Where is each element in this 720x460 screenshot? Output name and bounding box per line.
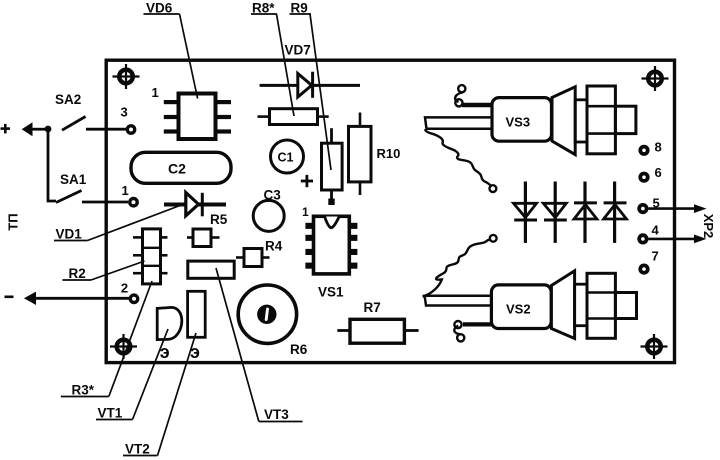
svg-text:VD7: VD7 bbox=[285, 43, 311, 58]
C1 polarity plus bbox=[301, 175, 313, 187]
switch SA2 bbox=[55, 92, 127, 130]
diode VD2 bbox=[514, 182, 538, 243]
capacitor C3 bbox=[253, 188, 284, 232]
VT1 emitter label bbox=[160, 342, 170, 362]
VD6 pin 1 label bbox=[152, 85, 159, 100]
svg-text:8: 8 bbox=[655, 140, 662, 155]
connector pin 4 bbox=[637, 223, 706, 245]
diode VD3 bbox=[543, 182, 567, 243]
svg-text:R6: R6 bbox=[290, 342, 308, 357]
diode VD4 bbox=[574, 182, 597, 243]
resistor R7 bbox=[337, 300, 418, 343]
R2 label bbox=[63, 261, 145, 281]
mounting hole top-left bbox=[113, 64, 140, 89]
svg-text:VS2: VS2 bbox=[506, 302, 531, 317]
transistor VT2 bbox=[188, 291, 206, 337]
mounting hole bottom-right bbox=[641, 334, 668, 359]
svg-text:R4: R4 bbox=[265, 239, 283, 254]
net label TP bbox=[6, 213, 21, 230]
svg-text:1: 1 bbox=[122, 183, 129, 198]
svg-text:4: 4 bbox=[652, 223, 660, 238]
VD1 label bbox=[54, 206, 180, 242]
svg-text:VT1: VT1 bbox=[98, 406, 123, 421]
svg-text:VT3: VT3 bbox=[264, 407, 289, 422]
svg-text:R7: R7 bbox=[364, 300, 381, 315]
VD6 label bbox=[144, 1, 198, 99]
svg-text:C2: C2 bbox=[168, 161, 186, 177]
resistor R4 bbox=[236, 239, 283, 267]
VS1 pin 1 label bbox=[302, 205, 309, 219]
VT2 label bbox=[123, 333, 196, 457]
svg-text:7: 7 bbox=[652, 249, 659, 264]
wire junction to SA1 bbox=[48, 129, 56, 201]
connector pin 7 bbox=[638, 249, 658, 275]
svg-text:ТП: ТП bbox=[6, 213, 21, 230]
mounting hole top-right bbox=[642, 66, 669, 91]
connector pin 8 bbox=[638, 140, 661, 156]
svg-text:SA2: SA2 bbox=[55, 92, 81, 107]
R3* label bbox=[61, 281, 152, 398]
svg-text:2: 2 bbox=[121, 281, 128, 296]
svg-text:R10: R10 bbox=[377, 146, 401, 161]
buzzer R6 bbox=[238, 285, 308, 357]
diode VD5 bbox=[604, 182, 627, 243]
R9 label bbox=[290, 1, 332, 171]
node junction dot bbox=[45, 126, 52, 133]
resistor R9 bbox=[322, 128, 343, 205]
switch SA1 bbox=[56, 172, 128, 203]
thyristor VS3 bbox=[425, 85, 636, 155]
thyristor VS2 bbox=[425, 271, 637, 342]
svg-text:R3*: R3* bbox=[72, 383, 95, 398]
IC VS1 bbox=[305, 216, 357, 274]
mounting hole bottom-left bbox=[110, 334, 137, 359]
svg-text:R5: R5 bbox=[210, 212, 228, 227]
svg-text:SA1: SA1 bbox=[60, 172, 87, 187]
IC VD6 bbox=[164, 94, 231, 140]
resistor R5 bbox=[187, 212, 228, 247]
node 3 bbox=[121, 105, 135, 134]
svg-text:VD1: VD1 bbox=[56, 227, 83, 242]
minus terminal bbox=[5, 292, 130, 305]
connector pin 6 bbox=[638, 165, 661, 183]
svg-text:3: 3 bbox=[121, 105, 128, 120]
connector pin 5 bbox=[637, 196, 706, 215]
transistor VT1 bbox=[157, 307, 182, 339]
svg-text:1: 1 bbox=[302, 205, 309, 219]
resistor R8 bbox=[258, 109, 329, 125]
svg-text:6: 6 bbox=[655, 165, 662, 180]
svg-text:VS3: VS3 bbox=[506, 115, 531, 130]
VS2 gate wire squiggle bbox=[423, 235, 497, 297]
diode VD1 bbox=[164, 193, 226, 217]
svg-text:VS1: VS1 bbox=[318, 285, 344, 300]
plus terminal bbox=[1, 122, 49, 136]
transistor VT3 bbox=[188, 261, 234, 278]
capacitor C2 bbox=[131, 152, 231, 183]
resistor R10 bbox=[349, 113, 401, 196]
svg-text:VT2: VT2 bbox=[125, 442, 150, 457]
svg-text:R2: R2 bbox=[69, 266, 86, 281]
svg-text:XP2: XP2 bbox=[701, 214, 716, 239]
VT2 emitter label bbox=[190, 342, 200, 362]
connector XP2 label bbox=[701, 214, 716, 239]
diode VD7 bbox=[260, 43, 360, 98]
VT1 label bbox=[96, 329, 168, 421]
svg-text:C1: C1 bbox=[278, 151, 294, 165]
board outline bbox=[106, 60, 674, 362]
resistor network R2 bbox=[133, 229, 168, 284]
VS1 label bbox=[318, 285, 344, 300]
R8* label bbox=[251, 1, 294, 117]
VT3 label bbox=[216, 268, 303, 422]
node 1 bbox=[122, 183, 138, 206]
svg-text:1: 1 bbox=[152, 85, 159, 100]
capacitor C1 bbox=[271, 140, 304, 173]
node 2 bbox=[121, 281, 138, 303]
VS3 gate wire squiggle bbox=[425, 129, 496, 192]
